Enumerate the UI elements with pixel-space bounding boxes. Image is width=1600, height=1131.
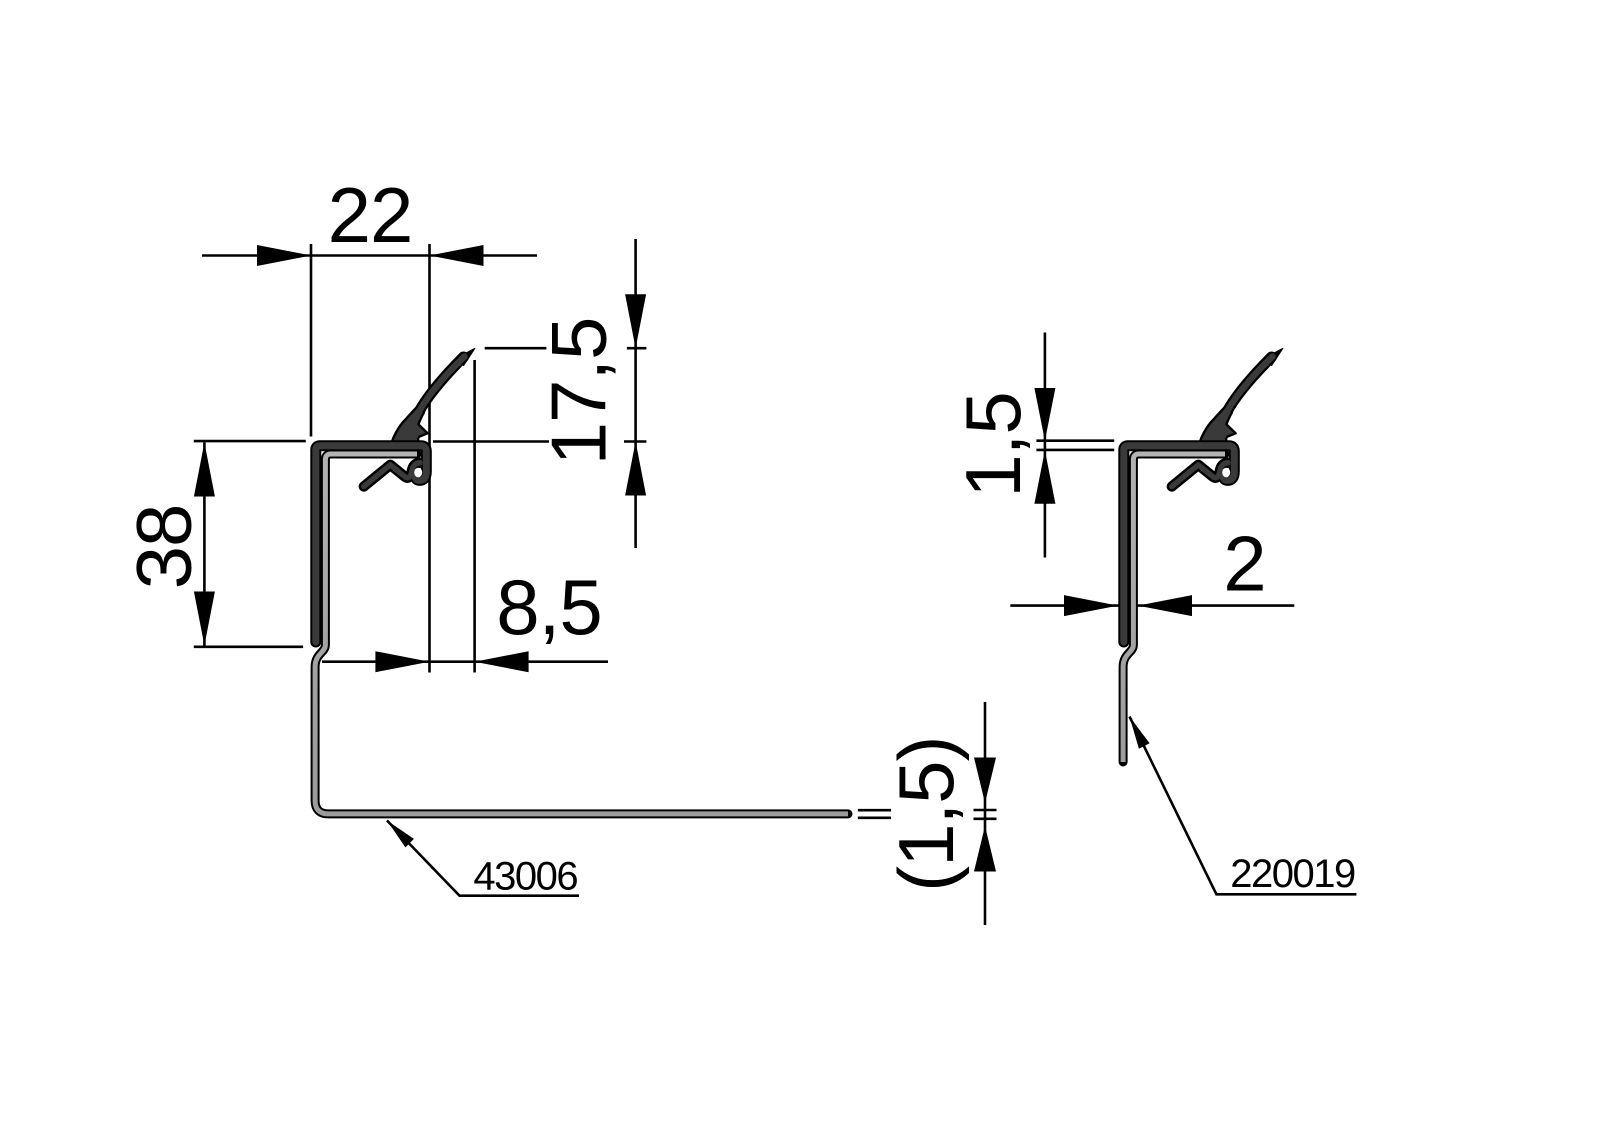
ext line 38 top [194,440,306,443]
seal on 220019 [1124,348,1283,642]
arrow 38 bottom [194,592,215,646]
ext line 22 right [428,244,431,673]
svg-text:43006: 43006 [473,855,577,899]
leader 43006 [387,821,579,896]
equality symbol [858,810,891,818]
svg-text:220019: 220019 [1230,852,1355,896]
ext line 17,5 top [485,347,647,350]
dim line 38 [203,443,206,646]
ext line 1,5 top [1036,439,1114,442]
svg-text:(1,5): (1,5) [882,737,970,892]
arrow 8,5 left [375,651,429,672]
svg-text:2: 2 [1223,520,1265,608]
dim line 22 [202,254,537,257]
sheet metal 43006 black outline [315,454,848,814]
arrow 8,5 right [475,651,529,672]
arrow 1,5 top [1034,388,1055,441]
arrow (1,5) bottom [974,826,996,872]
sheet metal 220019 black outline [1123,454,1225,762]
arrow 38 top [194,443,215,497]
ext line 22 left [310,244,313,437]
dim line 1,5 [1044,333,1047,558]
ext line 1,5 bottom [1036,449,1114,452]
arrow 17,5 bottom [625,442,646,496]
ext line 38 bottom [194,645,303,648]
sheet metal 220019 grey core [1123,454,1225,762]
svg-text:17,5: 17,5 [535,318,623,466]
dim line 17,5 [634,239,637,548]
leader arrowhead 43006 [387,821,414,848]
ext line 8,5 right [473,360,476,673]
arrow 1,5 bottom [1034,450,1055,504]
svg-text:22: 22 [328,171,413,259]
tick marks (1,5) [974,810,997,819]
arrow 22 right [430,245,484,266]
leader arrowhead 220019 [1130,717,1150,749]
ext line 17,5 bottom [433,440,646,443]
arrow 17,5 top [625,294,646,348]
svg-text:1,5: 1,5 [949,392,1037,497]
svg-text:38: 38 [119,505,207,590]
leader 220019 [1130,717,1357,895]
svg-text:8,5: 8,5 [496,563,601,651]
dim line (1,5) [984,702,987,925]
sheet metal 43006 grey core [315,454,848,814]
arrow 22 left [257,245,311,266]
dim line 2 [1010,604,1294,607]
dim line 8,5 [322,660,608,663]
arrow 2 left [1064,595,1118,616]
arrow 2 right [1138,595,1192,616]
seal on 43006 [316,348,475,642]
arrow (1,5) top [974,758,996,804]
